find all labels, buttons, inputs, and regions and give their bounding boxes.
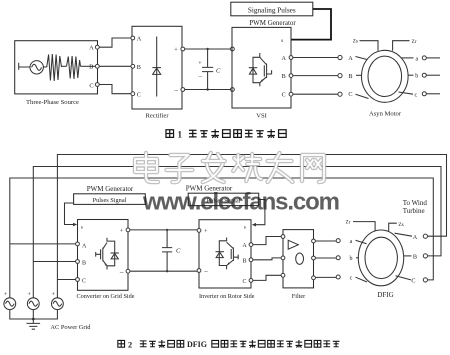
svg-text:DFIG: DFIG bbox=[377, 291, 393, 299]
svg-text:c: c bbox=[350, 276, 353, 282]
AC source V1 bbox=[30, 61, 43, 74]
svg-text:Asyn Motor: Asyn Motor bbox=[369, 111, 402, 118]
node rb bbox=[336, 256, 340, 260]
svg-text:+: + bbox=[119, 227, 123, 234]
node Zs lead bbox=[353, 39, 378, 51]
motor terminal B lead bbox=[348, 73, 361, 80]
svg-text:A: A bbox=[242, 243, 247, 249]
node b1 bbox=[338, 74, 342, 78]
IGBT Q3 with diode (inverter) bbox=[216, 238, 239, 270]
node Zs lead (DFIG) bbox=[389, 222, 404, 232]
wire PWM generator to VSI gate bbox=[291, 9, 331, 40]
AC source G1 bbox=[4, 291, 16, 310]
svg-text:+: + bbox=[4, 291, 8, 298]
capacitor C2 (DC link) bbox=[162, 229, 181, 273]
pin C (VSI) bbox=[282, 92, 293, 99]
caption fig1: 图1 典型的变频器原理图 (pseudo glyphs) bbox=[166, 129, 286, 139]
svg-text:C: C bbox=[348, 91, 352, 98]
asynchronous motor M1 (stator/rotor circles) bbox=[362, 50, 409, 102]
svg-text:Inverter on Rotor Side: Inverter on Rotor Side bbox=[199, 293, 255, 300]
svg-text:A: A bbox=[82, 243, 87, 249]
svg-text:s: s bbox=[281, 38, 283, 44]
node B (rectifier input) bbox=[131, 64, 141, 71]
wire inverter B to filter bbox=[253, 258, 281, 260]
diode D1 (inside rectifier) bbox=[152, 37, 161, 97]
inductor L2 (scribble) bbox=[67, 56, 81, 79]
wire VSI B to motor bbox=[293, 75, 338, 77]
svg-text:VSI: VSI bbox=[256, 113, 267, 120]
svg-text:–: – bbox=[198, 73, 203, 80]
pin A (VSI) bbox=[281, 55, 292, 62]
svg-text:A: A bbox=[89, 45, 94, 52]
svg-text:2: 2 bbox=[128, 340, 132, 349]
wire tap B to converter bbox=[33, 261, 76, 263]
wire PWM2 to inverter gate bbox=[252, 200, 265, 227]
inductor L1 (scribble) bbox=[47, 54, 62, 81]
node ra bbox=[336, 239, 340, 243]
wire tap A to converter bbox=[10, 243, 77, 245]
svg-text:a: a bbox=[415, 56, 418, 62]
wire DC- rail (fig2) bbox=[130, 270, 197, 272]
svg-text:1: 1 bbox=[178, 130, 183, 140]
wire to ground bbox=[32, 319, 34, 323]
svg-text:B: B bbox=[242, 258, 246, 264]
motor terminal C lead bbox=[348, 91, 368, 98]
wire bbox=[43, 66, 46, 68]
filter box U6 bbox=[283, 230, 314, 288]
capacitor C1 bbox=[198, 48, 221, 91]
pin + (inverter) bbox=[197, 228, 208, 235]
pulses signal box (PWM 2) bbox=[188, 193, 259, 205]
node a1 bbox=[338, 55, 342, 59]
svg-text:Rectifier: Rectifier bbox=[145, 113, 169, 120]
IGBT Q1 with freewheeling diode (VSI) bbox=[249, 53, 272, 86]
caption fig2: 图2 风力发电的DFIG用的向转子供电的变频器原理图 (pseudo glyphs) bbox=[118, 340, 340, 349]
pin + (rectifier) bbox=[174, 47, 185, 54]
svg-text:Zr: Zr bbox=[412, 39, 417, 45]
IGBT Q2 with diode (converter, mirrored) bbox=[96, 238, 119, 270]
node c1 bbox=[338, 92, 342, 96]
wire DC+ rail (fig1) bbox=[185, 48, 231, 50]
node A (source) bbox=[89, 45, 99, 52]
wire sources to neutral bbox=[10, 310, 58, 319]
wire PWM1 to converter gate bbox=[65, 203, 78, 226]
svg-text:s: s bbox=[81, 225, 83, 231]
rectifier box U1 bbox=[132, 26, 182, 109]
stator terminal A (DFIG) bbox=[395, 233, 428, 241]
node B (source) bbox=[89, 64, 99, 71]
wire VSI A to motor bbox=[293, 57, 338, 59]
svg-text:Zs: Zs bbox=[353, 39, 358, 45]
node C (rectifier input) bbox=[131, 91, 141, 98]
svg-text:B: B bbox=[413, 254, 417, 261]
rotor terminal a lead bbox=[350, 239, 367, 245]
pin - (converter) bbox=[119, 268, 130, 276]
pin B (VSI) bbox=[282, 73, 293, 80]
node C (source) bbox=[89, 82, 99, 89]
svg-text:A: A bbox=[413, 234, 418, 241]
svg-text:+: + bbox=[174, 47, 178, 54]
svg-text:–: – bbox=[174, 86, 179, 94]
motor terminal A lead bbox=[348, 55, 367, 62]
label To Wind Turbine bbox=[403, 199, 428, 215]
svg-text:AC Power Grid: AC Power Grid bbox=[50, 324, 91, 331]
rotor terminal c lead bbox=[350, 276, 367, 282]
wire source A to rectifier A bbox=[99, 38, 131, 47]
svg-text:C: C bbox=[137, 91, 141, 98]
bus phase 2 (middle rail loop) bbox=[33, 167, 441, 298]
pin C (inverter) bbox=[242, 279, 252, 286]
wire DC- rail (fig1) bbox=[185, 89, 231, 91]
svg-text:Three-Phase Source: Three-Phase Source bbox=[26, 99, 79, 106]
wire inverter A to filter bbox=[253, 237, 281, 245]
converter on grid side box U4 bbox=[78, 220, 129, 291]
wire tap C to converter bbox=[57, 279, 76, 281]
wire filter to rotor a bbox=[315, 240, 336, 242]
svg-text:A: A bbox=[281, 55, 286, 62]
svg-text:+: + bbox=[204, 228, 208, 235]
inverter on rotor side box U5 bbox=[199, 220, 251, 288]
svg-text:B: B bbox=[89, 64, 93, 71]
bus phase 1 (top rail loop) bbox=[57, 155, 446, 298]
svg-text:–: – bbox=[203, 267, 208, 275]
pin + (converter) bbox=[119, 227, 129, 234]
svg-text:B: B bbox=[82, 261, 86, 267]
svg-text:A: A bbox=[137, 36, 142, 43]
wire filter to rotor b bbox=[315, 257, 336, 259]
svg-text:+: + bbox=[51, 291, 55, 298]
wire to terminal B bbox=[81, 65, 96, 67]
svg-text:C: C bbox=[82, 278, 86, 284]
svg-text:Zs: Zs bbox=[398, 222, 403, 228]
svg-text:PWM Generator: PWM Generator bbox=[249, 19, 296, 27]
svg-text:B: B bbox=[348, 73, 352, 80]
pin - (inverter) bbox=[197, 267, 208, 275]
svg-text:s: s bbox=[244, 225, 246, 231]
bus phase 3 (bottom rail loop) bbox=[10, 178, 434, 298]
stator terminal C (DFIG) bbox=[396, 276, 428, 285]
pin C (converter) bbox=[76, 278, 86, 285]
pulses signal box (PWM 1) bbox=[74, 194, 146, 205]
svg-text:C: C bbox=[216, 68, 221, 75]
svg-text:+: + bbox=[198, 61, 202, 67]
svg-text:C: C bbox=[89, 82, 93, 89]
svg-text:DFIG: DFIG bbox=[187, 340, 207, 349]
svg-text:PWM Generator: PWM Generator bbox=[87, 185, 134, 193]
wire bbox=[62, 65, 67, 67]
filter input nodes bbox=[281, 235, 285, 278]
svg-text:–: – bbox=[119, 268, 124, 276]
pin - (rectifier) bbox=[174, 86, 185, 94]
node neutral junction bbox=[32, 318, 35, 321]
svg-text:a: a bbox=[350, 239, 353, 245]
svg-text:C: C bbox=[242, 279, 246, 285]
inductor ellipse (filter) bbox=[296, 253, 304, 264]
AC source G2 bbox=[27, 291, 39, 310]
amplifier triangle (filter) bbox=[288, 240, 298, 249]
DFIG machine M2 (stator/rotor circles) bbox=[358, 230, 403, 286]
motor terminal b bbox=[408, 73, 440, 80]
svg-text:B: B bbox=[137, 64, 141, 71]
wire DC+ rail (fig2) bbox=[130, 229, 197, 231]
svg-text:C: C bbox=[282, 92, 286, 99]
pin A (converter) bbox=[76, 242, 87, 249]
wire VSI C to motor bbox=[293, 93, 338, 95]
wire source C to rectifier C bbox=[99, 85, 131, 94]
node DC+ at VSI bbox=[231, 47, 235, 51]
motor terminal a bbox=[402, 56, 441, 63]
svg-text:Signaling Pulses: Signaling Pulses bbox=[248, 6, 296, 14]
node terminal tick bbox=[19, 63, 30, 70]
svg-text:+: + bbox=[27, 291, 31, 298]
svg-text:A: A bbox=[348, 55, 353, 62]
wire source B to rectifier B bbox=[99, 65, 131, 67]
PWM generator box U3 (fig1) bbox=[231, 2, 313, 16]
watermark 电子发烧友网 (outlined) bbox=[135, 153, 324, 182]
pin B (inverter) bbox=[242, 258, 252, 265]
motor terminal c bbox=[399, 92, 441, 99]
filter output nodes bbox=[312, 239, 316, 280]
svg-text:Pulses Signal: Pulses Signal bbox=[93, 197, 127, 204]
three-phase source box bbox=[15, 41, 98, 94]
node Zr lead (DFIG) bbox=[346, 220, 376, 231]
svg-text:Zr: Zr bbox=[346, 220, 351, 226]
wire inverter C to filter bbox=[253, 275, 281, 280]
VSI box U2 bbox=[232, 27, 291, 108]
rotor terminal b lead bbox=[350, 256, 359, 262]
ground bbox=[27, 323, 41, 329]
svg-text:To Wind: To Wind bbox=[403, 199, 428, 207]
svg-text:c: c bbox=[414, 92, 417, 98]
svg-text:b: b bbox=[350, 256, 353, 262]
AC source G3 bbox=[51, 291, 63, 310]
wire filter to rotor c bbox=[315, 276, 336, 278]
svg-text:Turbine: Turbine bbox=[403, 207, 425, 215]
node DC- at VSI bbox=[231, 88, 235, 92]
node Zr lead bbox=[393, 39, 417, 51]
node A (rectifier input) bbox=[131, 36, 142, 43]
svg-text:Filter: Filter bbox=[292, 293, 305, 300]
node rc bbox=[336, 275, 340, 279]
svg-text:C: C bbox=[176, 248, 181, 255]
stator terminal B (DFIG) bbox=[404, 254, 428, 261]
pin A (inverter) bbox=[242, 243, 253, 249]
svg-text:www.elecfans.com: www.elecfans.com bbox=[142, 189, 340, 216]
svg-text:C: C bbox=[411, 278, 415, 285]
pin B (converter) bbox=[76, 260, 86, 267]
svg-text:Converter on Grid Side: Converter on Grid Side bbox=[77, 293, 135, 300]
svg-text:b: b bbox=[415, 74, 418, 80]
svg-text:B: B bbox=[282, 73, 286, 80]
